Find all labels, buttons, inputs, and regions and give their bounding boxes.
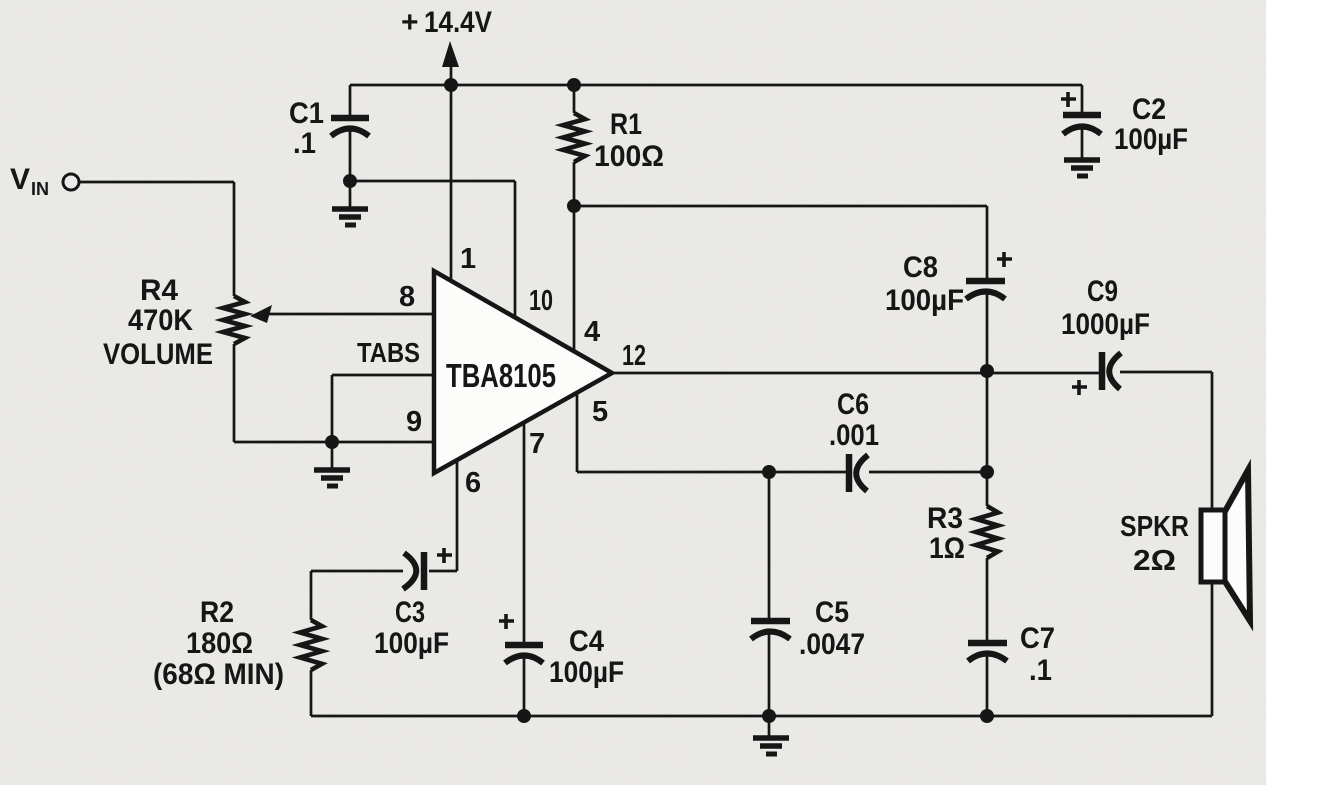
svg-text:TBA8105: TBA8105 bbox=[446, 357, 556, 394]
svg-text:.0047: .0047 bbox=[799, 628, 865, 661]
svg-text:10: 10 bbox=[529, 285, 553, 317]
junction node supply/rail bbox=[444, 78, 458, 92]
svg-text:TABS: TABS bbox=[357, 337, 420, 368]
potentiometer R4 bbox=[223, 296, 245, 344]
svg-text:VOLUME: VOLUME bbox=[103, 338, 213, 371]
ground at TABS node bbox=[314, 470, 350, 486]
svg-text:C8: C8 bbox=[903, 251, 938, 284]
junction node C6/R3 bbox=[980, 465, 994, 479]
wire Vin to R4 bbox=[79, 182, 234, 296]
junction node C4 bottom bbox=[517, 709, 531, 723]
resistor R1 bbox=[563, 113, 585, 162]
wire C6 to R3 node bbox=[869, 471, 987, 474]
wire C7 bottom lead bbox=[986, 654, 989, 716]
wire tabs ground lead bbox=[331, 442, 334, 468]
svg-text:R4: R4 bbox=[140, 274, 178, 307]
input terminal Vin bbox=[63, 174, 79, 190]
svg-text:1000µF: 1000µF bbox=[1061, 308, 1150, 341]
capacitor C8 bbox=[966, 281, 1005, 299]
wire R1 bottom / pin 4 line bbox=[573, 162, 576, 352]
wire C3 to R2 bbox=[311, 571, 403, 620]
wire C8 bottom lead to output node bbox=[986, 293, 989, 472]
capacitor C9 bbox=[1102, 352, 1121, 390]
junction node output/C8 bbox=[980, 364, 994, 378]
wire R2 bottom bbox=[310, 670, 313, 716]
junction node R1 top bbox=[567, 78, 581, 92]
wire TABS loop bbox=[332, 375, 434, 442]
svg-text:1Ω: 1Ω bbox=[929, 532, 965, 565]
svg-text:.001: .001 bbox=[829, 419, 879, 452]
junction node TABS/pin9 bbox=[325, 435, 339, 449]
svg-text:9: 9 bbox=[406, 406, 422, 438]
junction node C1 bottom bbox=[343, 174, 357, 188]
resistor R3 bbox=[976, 506, 998, 558]
svg-text:C4: C4 bbox=[569, 625, 604, 658]
wire R1 top lead bbox=[573, 85, 576, 113]
svg-text:C5: C5 bbox=[815, 596, 849, 629]
supply arrow bbox=[442, 41, 459, 67]
wire pin 6 line bbox=[429, 458, 457, 571]
wire R4 bottom to pin 9 bbox=[234, 344, 434, 442]
svg-text:5: 5 bbox=[592, 396, 608, 428]
svg-text:4: 4 bbox=[584, 316, 600, 348]
wire pin 5 line bbox=[577, 390, 846, 472]
junction node C7 bottom bbox=[980, 709, 994, 723]
svg-text:R1: R1 bbox=[610, 108, 642, 141]
capacitor C7 bbox=[968, 643, 1007, 661]
wire C2 top lead bbox=[1081, 85, 1084, 112]
speaker SPKR bbox=[1201, 470, 1250, 621]
plus sign C2 bbox=[1061, 92, 1076, 107]
plus sign C3 bbox=[437, 548, 452, 563]
svg-text:470K: 470K bbox=[128, 304, 193, 337]
svg-text:+: + bbox=[401, 6, 419, 39]
svg-text:.1: .1 bbox=[293, 127, 316, 160]
svg-text:R3: R3 bbox=[927, 502, 963, 535]
junction node C5 top bbox=[762, 465, 776, 479]
ground under C2 bbox=[1064, 160, 1100, 176]
svg-text:8: 8 bbox=[399, 281, 415, 313]
R4 wiper arrow bbox=[250, 305, 272, 323]
svg-text:C2: C2 bbox=[1132, 93, 1166, 126]
svg-text:C3: C3 bbox=[395, 596, 425, 629]
ground under bottom rail at C5 bbox=[753, 738, 789, 754]
plus sign C8 bbox=[997, 252, 1012, 267]
svg-text:C7: C7 bbox=[1020, 622, 1055, 655]
capacitor C2 bbox=[1063, 115, 1101, 134]
ground under C1 bbox=[332, 209, 368, 225]
svg-text:180Ω: 180Ω bbox=[186, 627, 253, 660]
svg-text:6: 6 bbox=[465, 467, 481, 499]
svg-text:100µF: 100µF bbox=[885, 284, 964, 317]
svg-text:100µF: 100µF bbox=[374, 627, 449, 660]
wire C2 bottom lead to ground bbox=[1081, 127, 1084, 158]
wire +14.4V supply drop / pin 1 line bbox=[450, 58, 453, 281]
junction node R1 bottom bbox=[567, 199, 581, 213]
svg-text:(68Ω MIN): (68Ω MIN) bbox=[153, 658, 284, 691]
svg-text:SPKR: SPKR bbox=[1120, 511, 1189, 543]
svg-text:IN: IN bbox=[31, 179, 49, 199]
svg-text:100µF: 100µF bbox=[549, 656, 624, 689]
wire R1 node to C8 column bbox=[574, 205, 987, 208]
wire C1 bottom lead to ground node bbox=[349, 130, 352, 208]
svg-text:C6: C6 bbox=[837, 388, 869, 421]
svg-text:100Ω: 100Ω bbox=[594, 140, 664, 173]
svg-text:100µF: 100µF bbox=[1114, 123, 1188, 156]
capacitor C4 bbox=[505, 645, 543, 663]
svg-text:14.4V: 14.4V bbox=[424, 6, 492, 39]
wire top supply rail bbox=[350, 84, 1082, 87]
svg-text:.1: .1 bbox=[1029, 654, 1052, 687]
svg-text:C1: C1 bbox=[289, 97, 324, 130]
wire C1 top lead bbox=[349, 85, 352, 115]
junction node C5 bottom bbox=[762, 709, 776, 723]
svg-text:V: V bbox=[10, 163, 30, 196]
wire C9 to right rail bbox=[1120, 371, 1212, 374]
svg-text:2Ω: 2Ω bbox=[1133, 545, 1176, 577]
svg-text:12: 12 bbox=[622, 340, 646, 372]
svg-text:7: 7 bbox=[529, 428, 545, 460]
wire node to pin 10 bbox=[350, 181, 515, 318]
wire pin 7 / C4 column bbox=[523, 420, 526, 716]
wire right rail down to speaker and bottom rail bbox=[1211, 372, 1214, 716]
svg-text:R2: R2 bbox=[200, 596, 234, 629]
wire bottom ground rail bbox=[311, 715, 1212, 718]
wire pin 8 to wiper bbox=[266, 313, 434, 316]
capacitor C1 bbox=[331, 118, 369, 136]
wire output line pin 12 to C9 bbox=[612, 372, 1100, 375]
capacitor C6 bbox=[849, 454, 868, 492]
svg-text:C9: C9 bbox=[1087, 275, 1118, 308]
svg-text:1: 1 bbox=[460, 243, 476, 275]
wire C8 top lead bbox=[986, 206, 989, 278]
resistor R2 bbox=[300, 620, 322, 670]
capacitor C3 bbox=[403, 552, 424, 590]
plus sign C9 bbox=[1072, 380, 1087, 395]
wire C5 branch bbox=[768, 472, 771, 736]
wire R3 column bbox=[986, 472, 989, 640]
capacitor C5 bbox=[751, 621, 790, 639]
plus sign C4 bbox=[499, 614, 514, 629]
op-amp U1 TBA8105 bbox=[434, 271, 612, 473]
